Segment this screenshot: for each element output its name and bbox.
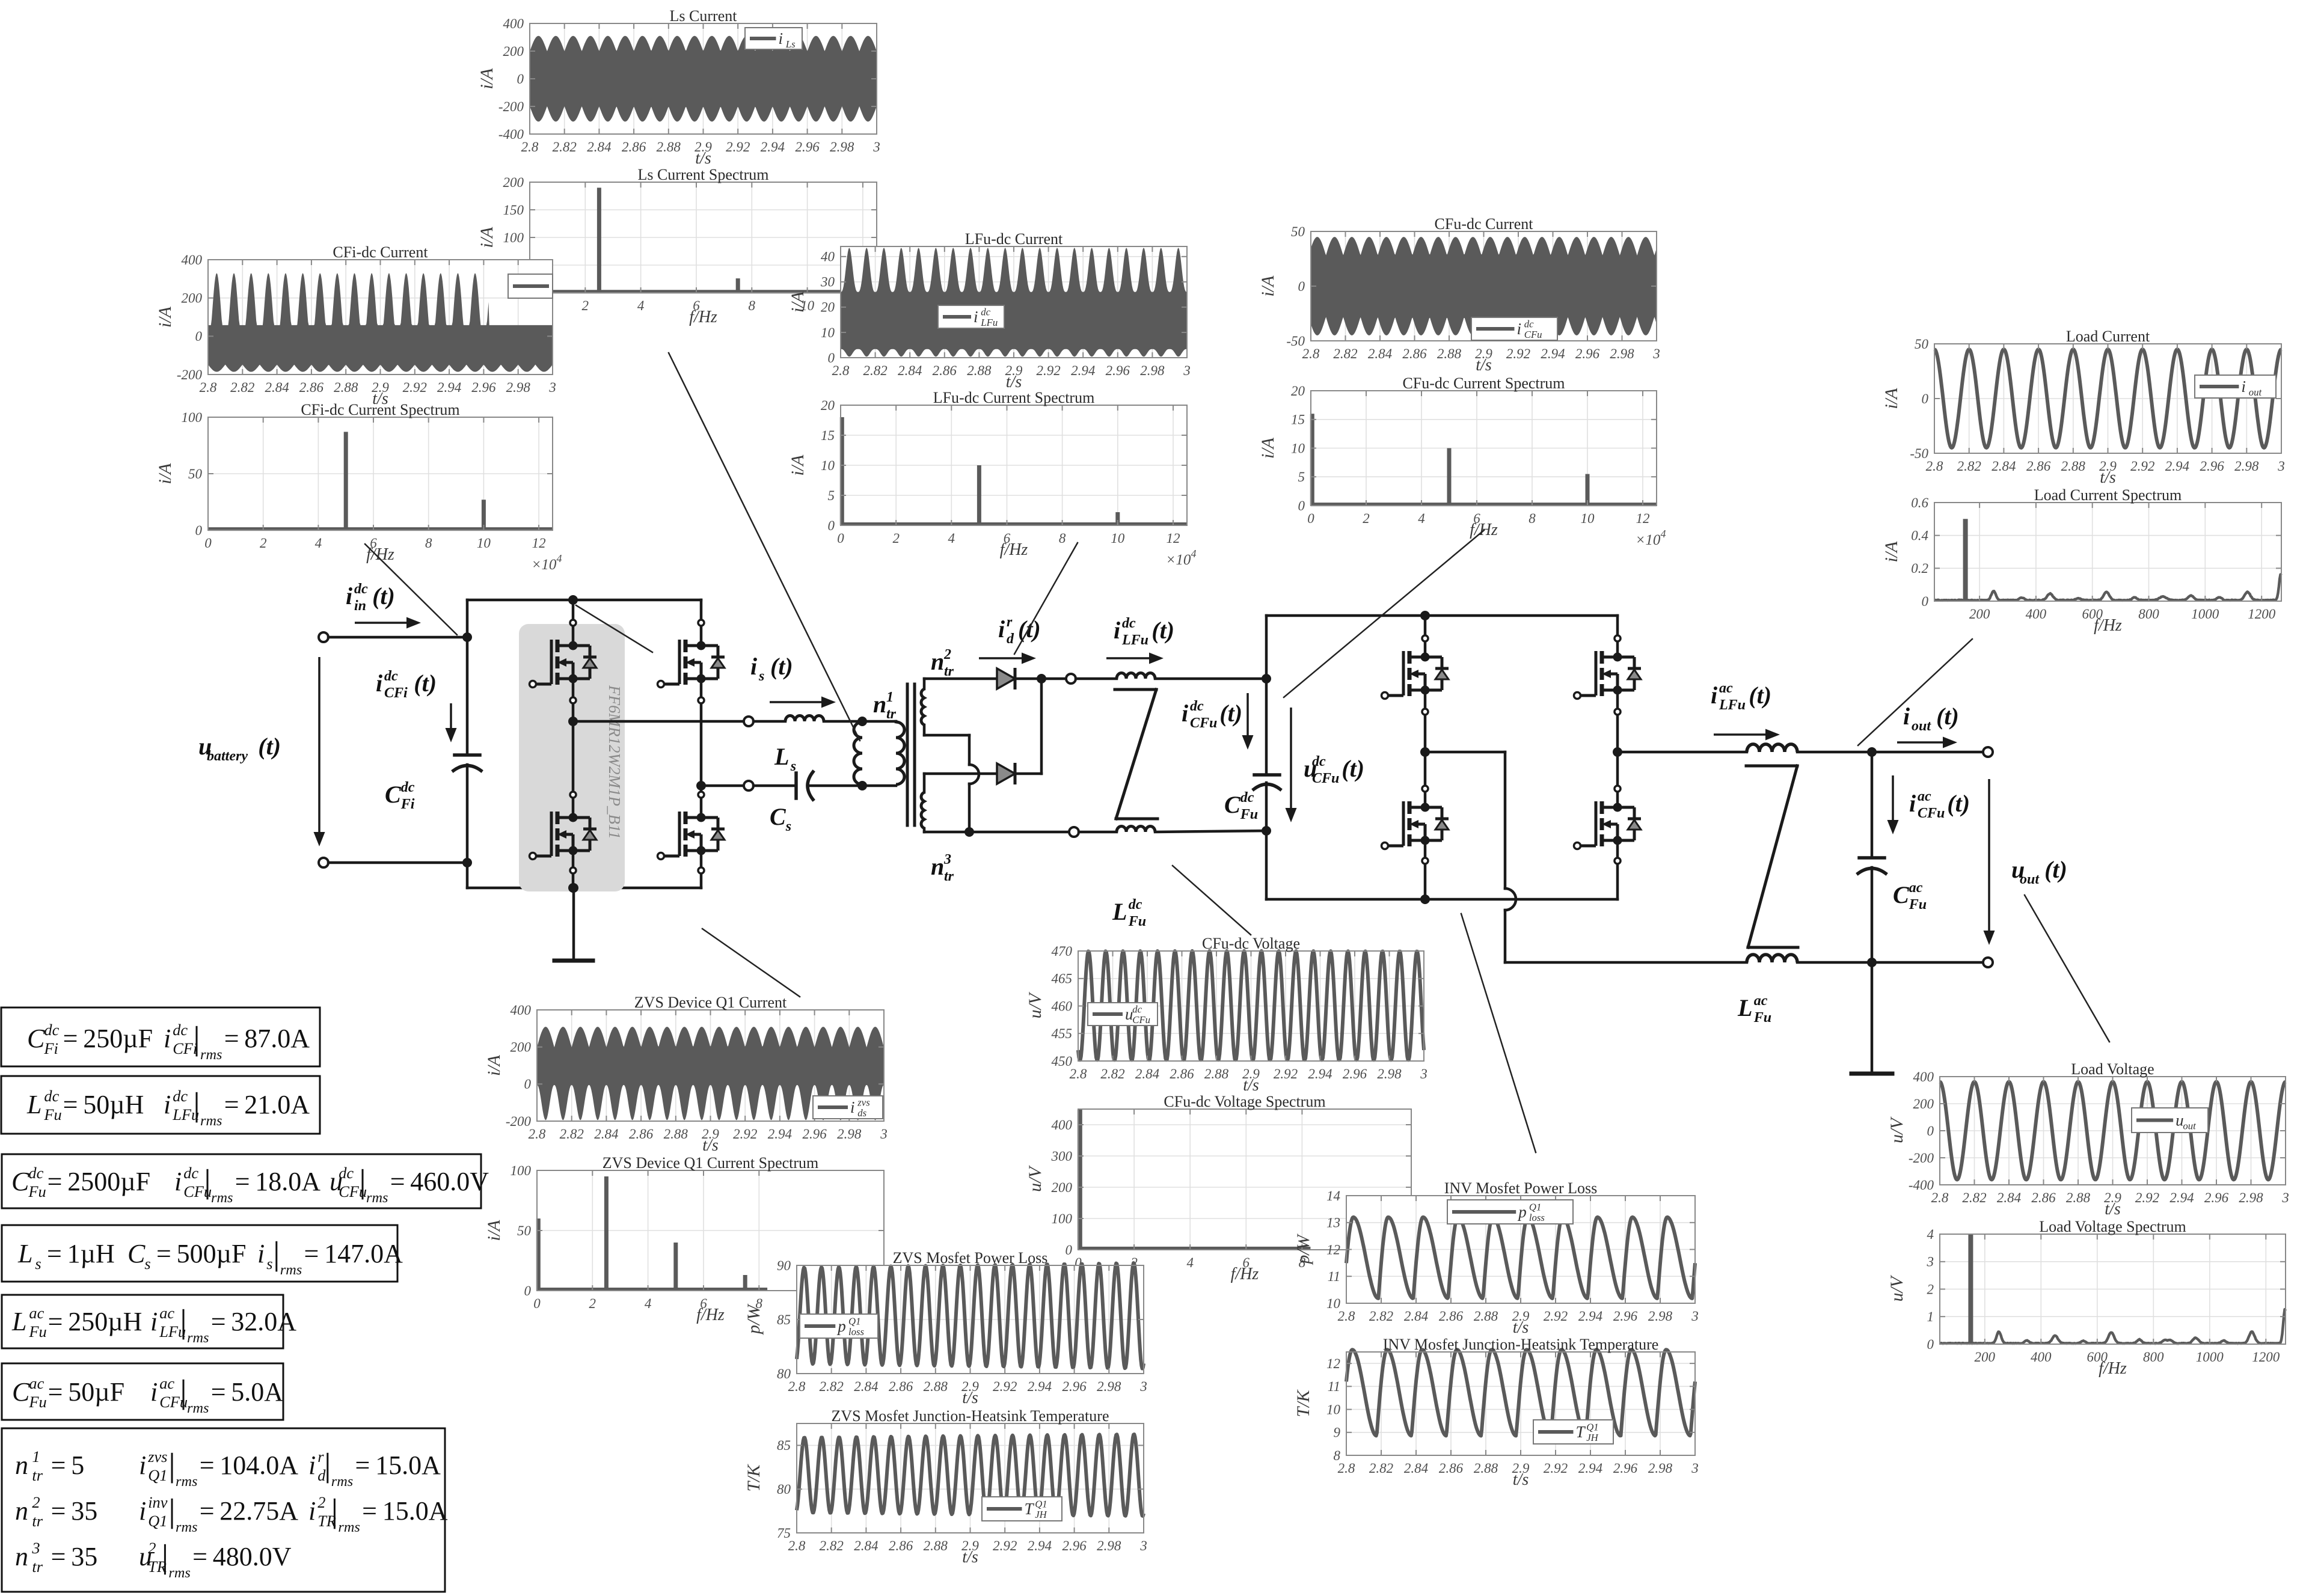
svg-text:f/Hz: f/Hz (366, 545, 394, 564)
svg-text:rms: rms (168, 1565, 190, 1581)
svg-text:i: i (1182, 700, 1188, 727)
svg-text:2.94: 2.94 (2165, 459, 2189, 474)
svg-text:2.86: 2.86 (1439, 1461, 1464, 1476)
svg-text:3: 3 (2281, 1190, 2289, 1205)
svg-text:INV Mosfet Junction-Heatsink T: INV Mosfet Junction-Heatsink Temperature (1383, 1336, 1659, 1353)
svg-text:out: out (2183, 1120, 2196, 1131)
svg-text:10: 10 (1581, 511, 1595, 526)
svg-text:4: 4 (315, 536, 322, 551)
svg-text:2.94: 2.94 (2169, 1190, 2194, 1205)
svg-text:n: n (15, 1496, 28, 1526)
svg-text:470: 470 (1052, 944, 1073, 959)
svg-text:= 5.0A: = 5.0A (211, 1377, 284, 1407)
svg-text:L: L (1112, 898, 1127, 925)
svg-text:L: L (774, 743, 789, 770)
svg-text:2.96: 2.96 (1613, 1461, 1638, 1476)
svg-text:40: 40 (821, 249, 835, 264)
svg-text:800: 800 (2138, 607, 2159, 622)
svg-text:10: 10 (1326, 1402, 1341, 1417)
svg-text:(t): (t) (770, 653, 793, 680)
svg-text:455: 455 (1052, 1026, 1073, 1041)
svg-text:0: 0 (1927, 1337, 1934, 1352)
svg-text:12: 12 (1167, 531, 1180, 546)
svg-text:3: 3 (2277, 459, 2285, 474)
svg-text:= 250µH: = 250µH (48, 1307, 143, 1336)
svg-text:dc: dc (1524, 319, 1534, 330)
svg-text:Fi: Fi (400, 796, 415, 812)
svg-text:8: 8 (1334, 1448, 1341, 1463)
svg-text:L: L (1737, 994, 1752, 1021)
svg-text:12: 12 (1636, 511, 1650, 526)
svg-text:-200: -200 (506, 1114, 532, 1129)
svg-text:n: n (931, 648, 944, 675)
svg-text:loss: loss (1529, 1212, 1545, 1223)
svg-text:Q1: Q1 (1529, 1202, 1541, 1213)
svg-text:150: 150 (503, 203, 524, 218)
svg-text:(t): (t) (1936, 703, 1959, 730)
svg-text:1: 1 (32, 1448, 40, 1466)
svg-text:ac: ac (159, 1374, 174, 1392)
svg-text:n: n (15, 1451, 28, 1480)
svg-text:n: n (15, 1542, 28, 1571)
svg-text:8: 8 (1529, 511, 1536, 526)
svg-text:ac: ac (29, 1304, 44, 1322)
svg-text:0: 0 (837, 531, 844, 546)
svg-text:LFu: LFu (1121, 632, 1148, 648)
svg-text:i: i (150, 1377, 158, 1407)
svg-text:JH: JH (1035, 1509, 1047, 1520)
svg-text:0: 0 (1298, 279, 1305, 294)
svg-text:2.92: 2.92 (1274, 1066, 1298, 1081)
svg-text:dc: dc (173, 1021, 188, 1039)
svg-text:3: 3 (880, 1127, 888, 1142)
svg-text:rms: rms (280, 1262, 302, 1278)
svg-text:TR: TR (148, 1558, 167, 1576)
svg-text:i: i (1517, 320, 1522, 338)
svg-text:2.8: 2.8 (1338, 1309, 1355, 1324)
svg-text:2.84: 2.84 (1135, 1066, 1159, 1081)
svg-text:100: 100 (182, 410, 203, 425)
svg-text:2: 2 (1363, 511, 1370, 526)
svg-text:2.8: 2.8 (788, 1379, 806, 1394)
svg-text:2.86: 2.86 (1439, 1309, 1464, 1324)
svg-text:400: 400 (1052, 1118, 1073, 1133)
svg-text:10: 10 (821, 325, 835, 340)
svg-text:(t): (t) (372, 582, 395, 610)
svg-text:1200: 1200 (2252, 1350, 2280, 1365)
svg-text:ac: ac (1754, 993, 1768, 1009)
svg-text:2.92: 2.92 (2130, 459, 2154, 474)
svg-text:0: 0 (828, 518, 835, 533)
svg-text:= 5: = 5 (51, 1451, 85, 1480)
svg-text:f/Hz: f/Hz (1231, 1265, 1259, 1283)
svg-text:200: 200 (503, 175, 524, 190)
svg-text:0: 0 (533, 1296, 541, 1311)
svg-text:200: 200 (1052, 1180, 1073, 1195)
svg-text:2: 2 (317, 1493, 325, 1511)
svg-text:0: 0 (524, 1077, 532, 1092)
svg-text:0: 0 (195, 523, 203, 538)
svg-text:2: 2 (32, 1493, 40, 1511)
svg-text:i/A: i/A (788, 291, 808, 313)
svg-text:20: 20 (1291, 384, 1305, 399)
svg-text:30: 30 (820, 275, 835, 290)
svg-text:i/A: i/A (1881, 541, 1901, 563)
svg-text:2.86: 2.86 (622, 139, 646, 154)
svg-text:2.96: 2.96 (1613, 1309, 1638, 1324)
svg-text:2.84: 2.84 (265, 380, 289, 395)
svg-text:2: 2 (943, 647, 951, 662)
svg-text:CFu: CFu (1918, 806, 1945, 821)
svg-text:i/A: i/A (1881, 388, 1901, 409)
svg-text:2.8: 2.8 (1926, 459, 1943, 474)
svg-text:= 32.0A: = 32.0A (211, 1307, 297, 1336)
svg-text:= 460.0V: = 460.0V (390, 1167, 489, 1196)
svg-text:JH: JH (1586, 1432, 1598, 1443)
svg-text:i: i (2241, 378, 2246, 396)
svg-text:= 2500µF: = 2500µF (48, 1167, 150, 1196)
svg-text:dc: dc (1312, 754, 1326, 769)
svg-text:i/A: i/A (1258, 437, 1278, 459)
svg-text:Fi: Fi (43, 1039, 58, 1057)
svg-text:2.98: 2.98 (830, 139, 854, 154)
svg-text:CFi: CFi (173, 1039, 197, 1057)
svg-text:rms: rms (211, 1190, 233, 1206)
svg-text:C: C (27, 1024, 45, 1053)
svg-text:2.96: 2.96 (2204, 1190, 2229, 1205)
svg-text:3: 3 (1183, 363, 1191, 378)
svg-text:1200: 1200 (2248, 607, 2276, 622)
svg-text:2.88: 2.88 (1204, 1066, 1229, 1081)
svg-text:f/Hz: f/Hz (2099, 1359, 2127, 1378)
svg-text:dc: dc (339, 1164, 354, 1182)
svg-text:C: C (1893, 881, 1910, 908)
svg-text:1000: 1000 (2196, 1350, 2224, 1365)
svg-text:50: 50 (1291, 224, 1305, 239)
svg-text:2.82: 2.82 (1962, 1190, 1986, 1205)
svg-text:zvs: zvs (857, 1097, 869, 1108)
svg-text:2.94: 2.94 (768, 1127, 792, 1142)
svg-text:15: 15 (821, 428, 835, 443)
svg-text:C: C (770, 803, 787, 830)
svg-text:LFu-dc Current: LFu-dc Current (965, 230, 1063, 248)
svg-text:(t): (t) (414, 670, 437, 697)
svg-text:2.92: 2.92 (2135, 1190, 2159, 1205)
svg-text:2.8: 2.8 (529, 1127, 546, 1142)
svg-text:2.88: 2.88 (967, 363, 992, 378)
svg-text:8: 8 (749, 298, 756, 313)
svg-text:15: 15 (1291, 412, 1305, 427)
svg-text:465: 465 (1052, 971, 1073, 986)
svg-text:12: 12 (532, 536, 546, 551)
svg-text:50: 50 (1915, 337, 1929, 352)
svg-text:4: 4 (1927, 1227, 1934, 1242)
svg-text:s: s (266, 1255, 272, 1273)
svg-text:dc: dc (44, 1087, 59, 1105)
svg-text:3: 3 (1691, 1309, 1699, 1324)
svg-text:C: C (11, 1167, 29, 1196)
svg-text:3: 3 (872, 139, 880, 154)
svg-text:12: 12 (1326, 1356, 1340, 1371)
svg-text:CFu-dc Voltage Spectrum: CFu-dc Voltage Spectrum (1164, 1093, 1325, 1110)
svg-text:2.98: 2.98 (506, 380, 531, 395)
svg-text:2.8: 2.8 (1338, 1461, 1355, 1476)
svg-text:1000: 1000 (2191, 607, 2219, 622)
svg-text:Q1: Q1 (1586, 1422, 1598, 1433)
svg-text:ZVS Mosfet Junction-Heatsink T: ZVS Mosfet Junction-Heatsink Temperature (832, 1407, 1109, 1425)
svg-text:d: d (317, 1466, 326, 1484)
svg-text:100: 100 (511, 1163, 532, 1178)
svg-text:80: 80 (777, 1482, 791, 1497)
svg-text:i: i (1711, 682, 1717, 709)
svg-text:ac: ac (159, 1304, 174, 1322)
svg-text:200: 200 (1913, 1096, 1934, 1111)
svg-text:= 250µF: = 250µF (63, 1024, 153, 1053)
svg-text:CFu: CFu (1190, 715, 1217, 731)
svg-text:t/s: t/s (1513, 1318, 1529, 1337)
svg-text:2.92: 2.92 (403, 380, 427, 395)
svg-text:10: 10 (1326, 1296, 1341, 1311)
svg-text:2.98: 2.98 (1140, 363, 1165, 378)
svg-text:i: i (150, 1307, 158, 1336)
svg-text:100: 100 (1052, 1211, 1073, 1226)
svg-text:rms: rms (176, 1519, 197, 1535)
svg-text:2.88: 2.88 (2066, 1190, 2091, 1205)
svg-text:dc: dc (1122, 616, 1136, 631)
svg-text:2.84: 2.84 (1404, 1309, 1428, 1324)
svg-text:tr: tr (32, 1558, 43, 1576)
svg-text:f/Hz: f/Hz (1000, 540, 1028, 559)
svg-text:-50: -50 (1910, 446, 1928, 461)
svg-text:dc: dc (1240, 790, 1254, 806)
svg-text:4: 4 (1418, 511, 1425, 526)
svg-text:ZVS Mosfet Power Loss: ZVS Mosfet Power Loss (893, 1249, 1048, 1267)
svg-text:CFu-dc Current: CFu-dc Current (1435, 215, 1534, 233)
svg-text:2.8: 2.8 (521, 139, 539, 154)
svg-text:i: i (974, 308, 978, 326)
svg-text:2.94: 2.94 (1578, 1461, 1602, 1476)
svg-text:2.82: 2.82 (1369, 1461, 1393, 1476)
svg-text:2: 2 (892, 531, 900, 546)
svg-text:n: n (873, 691, 886, 718)
svg-text:Load Current Spectrum: Load Current Spectrum (2034, 486, 2182, 504)
svg-text:20: 20 (821, 398, 835, 413)
svg-text:p/W: p/W (744, 1303, 764, 1335)
svg-text:0: 0 (1922, 594, 1929, 609)
svg-text:i: i (376, 670, 382, 697)
svg-text:2.86: 2.86 (889, 1538, 913, 1553)
svg-text:C: C (12, 1377, 30, 1407)
svg-text:2.88: 2.88 (1474, 1309, 1498, 1324)
svg-text:4: 4 (637, 298, 645, 313)
svg-text:2.92: 2.92 (993, 1538, 1017, 1553)
svg-text:2.92: 2.92 (1544, 1309, 1568, 1324)
svg-text:dc: dc (401, 780, 415, 795)
svg-text:2.8: 2.8 (1302, 346, 1320, 361)
svg-text:800: 800 (2143, 1350, 2164, 1365)
svg-text:i: i (998, 616, 1005, 643)
svg-text:5: 5 (828, 488, 835, 503)
svg-text:2.88: 2.88 (1437, 346, 1462, 361)
svg-text:s: s (785, 819, 791, 834)
svg-text:0.2: 0.2 (1911, 561, 1928, 576)
svg-text:14: 14 (1326, 1188, 1340, 1203)
svg-text:-200: -200 (1909, 1151, 1934, 1166)
svg-text:-200: -200 (498, 99, 524, 114)
svg-text:1: 1 (1927, 1309, 1934, 1324)
svg-text:2.98: 2.98 (1377, 1066, 1402, 1081)
svg-text:2.96: 2.96 (1062, 1379, 1087, 1394)
svg-text:(t): (t) (1342, 755, 1364, 782)
svg-text:loss: loss (848, 1326, 864, 1338)
svg-text:tr: tr (32, 1466, 43, 1484)
svg-text:80: 80 (777, 1366, 791, 1381)
svg-text:Q1: Q1 (848, 1316, 860, 1327)
svg-text:2.86: 2.86 (889, 1379, 913, 1394)
svg-text:(t): (t) (258, 733, 281, 760)
svg-text:1: 1 (886, 689, 894, 705)
svg-text:zvs: zvs (147, 1448, 167, 1466)
svg-text:dc: dc (28, 1164, 43, 1182)
svg-text:= 15.0A: = 15.0A (355, 1451, 441, 1480)
svg-text:2.8: 2.8 (832, 363, 850, 378)
svg-text:u/V: u/V (1025, 991, 1045, 1018)
svg-text:3: 3 (31, 1539, 40, 1557)
svg-text:2.94: 2.94 (1071, 363, 1095, 378)
svg-text:rms: rms (200, 1047, 222, 1063)
svg-text:2.82: 2.82 (553, 139, 577, 154)
svg-text:2.88: 2.88 (924, 1379, 948, 1394)
svg-text:Fu: Fu (1753, 1010, 1771, 1026)
svg-text:(t): (t) (1219, 700, 1242, 727)
svg-text:2.88: 2.88 (924, 1538, 948, 1553)
svg-text:460: 460 (1052, 998, 1073, 1014)
svg-text:3: 3 (1652, 346, 1660, 361)
svg-text:2.98: 2.98 (1610, 346, 1634, 361)
svg-text:2.96: 2.96 (1343, 1066, 1367, 1081)
svg-text:LFu: LFu (159, 1322, 186, 1341)
svg-text:= 15.0A: = 15.0A (362, 1496, 448, 1526)
svg-text:CFi-dc Current Spectrum: CFi-dc Current Spectrum (301, 401, 459, 418)
svg-text:400: 400 (503, 16, 524, 31)
svg-text:rms: rms (187, 1400, 209, 1416)
svg-text:i/A: i/A (155, 463, 175, 485)
svg-text:10: 10 (1111, 531, 1125, 546)
svg-text:2.82: 2.82 (863, 363, 887, 378)
svg-text:d: d (1007, 631, 1014, 647)
svg-text:11: 11 (1328, 1379, 1340, 1394)
svg-text:Load Voltage: Load Voltage (2071, 1060, 2154, 1078)
svg-text:i/A: i/A (484, 1220, 504, 1241)
svg-text:2: 2 (260, 536, 267, 551)
svg-text:ac: ac (1719, 680, 1733, 696)
svg-text:3: 3 (1139, 1379, 1147, 1394)
svg-text:i: i (1903, 703, 1910, 730)
svg-text:85: 85 (777, 1312, 791, 1327)
svg-text:0: 0 (1927, 1124, 1934, 1139)
svg-text:2.96: 2.96 (1106, 363, 1130, 378)
svg-text:Fu: Fu (28, 1322, 46, 1341)
svg-text:CFi: CFi (384, 685, 408, 701)
svg-text:i: i (308, 1451, 316, 1480)
svg-text:3: 3 (548, 380, 556, 395)
svg-text:p: p (1517, 1203, 1527, 1221)
svg-text:s: s (758, 668, 764, 684)
svg-text:-400: -400 (498, 127, 524, 142)
svg-text:t/s: t/s (702, 1136, 719, 1155)
svg-text:75: 75 (777, 1526, 791, 1541)
svg-text:tr: tr (944, 664, 954, 679)
svg-text:ZVS Device Q1 Current: ZVS Device Q1 Current (634, 994, 787, 1011)
svg-text:(t): (t) (2044, 856, 2067, 883)
svg-text:i: i (779, 29, 783, 47)
svg-text:400: 400 (2031, 1350, 2052, 1365)
svg-text:8: 8 (425, 536, 432, 551)
svg-text:i/A: i/A (788, 454, 808, 476)
svg-text:2.84: 2.84 (854, 1379, 878, 1394)
svg-text:2.98: 2.98 (837, 1127, 862, 1142)
svg-text:2.92: 2.92 (1506, 346, 1530, 361)
svg-text:3: 3 (1691, 1461, 1699, 1476)
svg-text:= 480.0V: = 480.0V (192, 1542, 292, 1571)
svg-text:i: i (257, 1239, 265, 1268)
svg-text:2.82: 2.82 (820, 1538, 844, 1553)
svg-text:Load Current: Load Current (2066, 328, 2150, 345)
svg-text:400: 400 (182, 252, 203, 268)
svg-text:2.98: 2.98 (1648, 1309, 1673, 1324)
svg-text:4: 4 (1186, 1255, 1194, 1270)
svg-text:i: i (346, 582, 352, 610)
svg-text:2.8: 2.8 (200, 380, 217, 395)
svg-text:= 35: = 35 (51, 1496, 98, 1526)
svg-text:C: C (1224, 791, 1241, 818)
svg-text:2.98: 2.98 (1648, 1461, 1673, 1476)
svg-text:s: s (144, 1255, 150, 1273)
svg-text:n: n (931, 853, 944, 880)
svg-text:2.88: 2.88 (664, 1127, 688, 1142)
svg-text:3: 3 (1139, 1538, 1147, 1553)
svg-text:i/A: i/A (477, 227, 497, 248)
svg-text:Ls: Ls (785, 38, 796, 50)
svg-text:2.84: 2.84 (1997, 1190, 2021, 1205)
svg-text:i: i (1909, 790, 1916, 817)
svg-text:2.84: 2.84 (854, 1538, 878, 1553)
svg-text:0: 0 (1298, 498, 1305, 513)
svg-text:in: in (354, 598, 366, 614)
svg-text:2.92: 2.92 (993, 1379, 1017, 1394)
svg-text:p: p (836, 1317, 846, 1335)
svg-text:Fu: Fu (1909, 897, 1927, 913)
svg-text:2: 2 (148, 1539, 156, 1557)
svg-text:100: 100 (503, 230, 524, 245)
svg-text:2.86: 2.86 (1402, 346, 1427, 361)
svg-text:0: 0 (195, 329, 203, 344)
svg-text:200: 200 (182, 291, 203, 306)
svg-text:ds: ds (857, 1107, 866, 1119)
svg-text:= 87.0A: = 87.0A (224, 1024, 310, 1053)
svg-text:2.94: 2.94 (1028, 1379, 1052, 1394)
svg-text:20: 20 (821, 300, 835, 315)
svg-text:0: 0 (204, 536, 212, 551)
svg-text:dc: dc (1129, 897, 1142, 913)
svg-text:rms: rms (187, 1330, 209, 1346)
svg-text:0: 0 (524, 1283, 532, 1298)
svg-text:3: 3 (1420, 1066, 1427, 1081)
svg-text:2.96: 2.96 (802, 1127, 827, 1142)
svg-text:10: 10 (1291, 441, 1305, 456)
svg-text:Ls Current: Ls Current (670, 7, 738, 25)
svg-text:3: 3 (1927, 1255, 1934, 1270)
